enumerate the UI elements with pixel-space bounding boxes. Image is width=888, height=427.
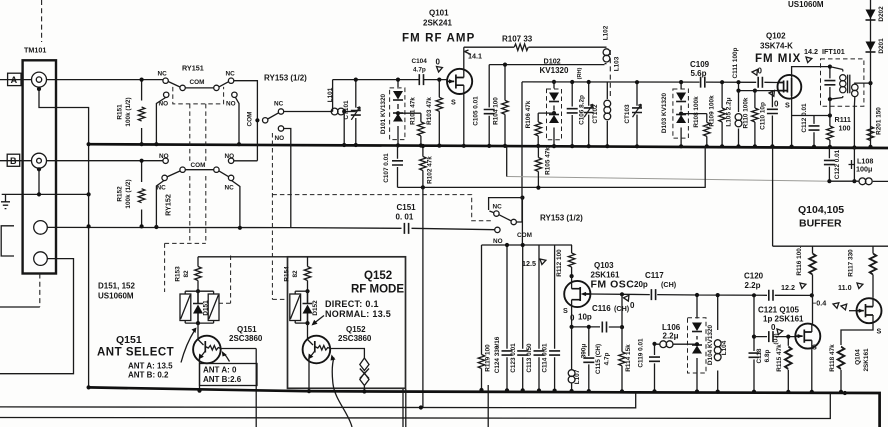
wire L101 to CT101 column [344, 111, 356, 113]
diode D151 [193, 291, 203, 323]
transistor Q151 2SC3860 [193, 336, 221, 364]
junction diamonds bus [362, 389, 366, 393]
junction shield/bus1 [87, 142, 91, 146]
svg-text:R104 100: R104 100 [493, 97, 500, 125]
capacitor C124 electrolytic [506, 245, 508, 390]
relay RY151 contact COM right [214, 85, 219, 90]
capacitor C151 [404, 223, 408, 234]
relay RY153b contact NC [494, 211, 499, 216]
relay RY151 contact NO right [232, 92, 237, 97]
svg-text:R118 47k: R118 47k [829, 344, 836, 372]
wire Q103 drain [571, 276, 573, 289]
leader ANT SELECT to D151 [181, 331, 195, 363]
wire vertical RF fold [487, 385, 489, 427]
relay RY153b contact COM [511, 219, 516, 224]
capacitor C117 [651, 289, 655, 300]
junction R101 bus [419, 143, 423, 147]
svg-text:R105 47k: R105 47k [545, 147, 552, 175]
connector 3 [34, 221, 48, 235]
svg-text:C120: C120 [744, 272, 764, 281]
wire out row [829, 180, 888, 182]
relay RY151 linkage dashed box [173, 87, 224, 104]
junction source bus [790, 145, 794, 149]
svg-text:TM101: TM101 [24, 46, 46, 55]
svg-text:20p: 20p [634, 280, 648, 289]
junction D151 bottom [196, 321, 200, 325]
svg-text:S: S [812, 343, 817, 352]
wire Q103 source [571, 300, 573, 327]
resistor R106 [537, 113, 539, 146]
junction R109 bus [720, 144, 724, 148]
svg-text:L104: L104 [721, 340, 728, 355]
junction G2 branch [736, 80, 740, 84]
shield bus vertical [88, 144, 90, 388]
relay RY152 contact NC right [228, 175, 233, 180]
resistor R111 [829, 116, 831, 147]
dashed box D101 [390, 88, 405, 140]
junction R104 top [503, 63, 507, 67]
svg-text:R108 100k: R108 100k [693, 96, 700, 128]
svg-text:Q151: Q151 [237, 325, 257, 334]
junction R119 bottom [479, 388, 483, 392]
svg-text:A: A [11, 75, 18, 85]
junction bottom bus [87, 385, 91, 389]
junction D101 mid [396, 111, 400, 115]
svg-text:S: S [451, 98, 456, 107]
junction C105 bus [487, 144, 491, 148]
junction Q152 emitter bus [307, 389, 311, 393]
relay linkage dashed verticals to RY152 [190, 104, 206, 163]
svg-text:RY151: RY151 [182, 64, 204, 73]
vertical R102 wire down [422, 187, 424, 407]
svg-text:COM: COM [247, 112, 254, 127]
junction R118 bottom [839, 390, 843, 394]
svg-text:RY152: RY152 [164, 194, 173, 216]
wire vertical supply from bus [506, 146, 508, 177]
resistor Q151 internal [205, 346, 220, 351]
wire gate column down [621, 294, 623, 327]
wire IF out faint [507, 177, 830, 182]
svg-text:D201: D201 [878, 38, 885, 54]
capacitor C105 [488, 65, 490, 146]
svg-text:C110 10p: C110 10p [760, 102, 767, 130]
wire secondary down to L108 row [853, 148, 855, 182]
svg-text:(CH): (CH) [661, 280, 677, 289]
junction NO-right bus [237, 142, 241, 146]
relay coil D151 block top wire [185, 290, 213, 292]
relay RY151 COM bar [185, 87, 213, 89]
svg-text:R119 100: R119 100 [485, 344, 492, 372]
leader curve Q152 base [332, 358, 352, 427]
resistor R110 [754, 91, 756, 147]
svg-text:COM: COM [191, 162, 206, 169]
svg-text:S: S [877, 327, 882, 336]
wire Q105 gate row [754, 336, 795, 338]
dashed box D104 [688, 318, 707, 373]
svg-text:C105 0.01: C105 0.01 [473, 96, 480, 126]
svg-text:NC: NC [274, 101, 284, 108]
svg-text:D101 KV1320: D101 KV1320 [380, 93, 387, 134]
junction C115 bottom [587, 389, 591, 393]
svg-text:D102: D102 [544, 57, 561, 66]
leader DIRECT to D152 [315, 316, 324, 323]
resistor R117 [872, 246, 874, 298]
wire Q105 source [811, 340, 813, 392]
resistor R103 [438, 80, 440, 146]
relay RY152 lever right [219, 171, 229, 177]
svg-text:Q102: Q102 [766, 32, 786, 41]
resistor R105 [537, 146, 539, 187]
svg-text:NC: NC [226, 71, 236, 78]
junction R201 bus [868, 145, 872, 149]
wire RY153a NC to L101 [284, 111, 333, 113]
svg-text:C113 0/50: C113 0/50 [526, 343, 533, 373]
junction D103 bus [679, 144, 683, 148]
capacitor C107 [397, 146, 399, 187]
svg-text:4.7p: 4.7p [413, 67, 426, 74]
svg-text:C112 0.01: C112 0.01 [801, 103, 808, 133]
svg-text:NORMAL: 13.5: NORMAL: 13.5 [325, 309, 391, 319]
svg-text:0: 0 [436, 58, 441, 67]
trimmer CT101 [355, 80, 357, 145]
wire vertical to RY153b node [521, 82, 523, 222]
trimmer CT103 [636, 82, 638, 146]
svg-text:ANT A: 0: ANT A: 0 [203, 366, 237, 375]
svg-text:RY153 (1/2): RY153 (1/2) [540, 214, 583, 223]
dashed box D102 [547, 89, 562, 140]
junction ant wire shield-x [154, 225, 158, 229]
resistor R154 [307, 257, 309, 291]
svg-text:C106 8.2p: C106 8.2p [579, 95, 586, 125]
wire RY152 NO right up [234, 160, 258, 162]
junction R102 bus [421, 144, 425, 148]
junction gate node [437, 78, 441, 82]
junction C118 area bus dots [843, 391, 847, 395]
junction CT101 top [354, 78, 358, 82]
box ANT voltages [200, 364, 258, 386]
svg-text:NC: NC [225, 185, 235, 192]
IF transformer IFT101 dashed box [821, 59, 864, 106]
node B input wire [0, 160, 163, 162]
svg-text:C115 (CH): C115 (CH) [595, 344, 602, 374]
svg-text:5.6p: 5.6p [691, 69, 707, 78]
svg-text:Q104,105: Q104,105 [798, 204, 844, 216]
svg-text:82: 82 [183, 270, 190, 278]
wire RY151 NC right to RY153 COM [234, 81, 258, 161]
junction B/R152 [140, 159, 144, 163]
wire B shield down [38, 169, 40, 194]
svg-text:0: 0 [771, 323, 776, 332]
resistor R115 [787, 337, 789, 392]
transistor Q102 FM MIX dual-gate [778, 75, 802, 99]
wire FM tank top [333, 80, 420, 112]
svg-text:NO: NO [226, 101, 236, 108]
junction R109 top [720, 80, 724, 84]
resistor R152 [141, 161, 143, 227]
diode D152 [303, 291, 313, 323]
wire source branch to C112/R111 [792, 115, 830, 117]
junction D102 bus [552, 144, 556, 148]
dashed box D103 [673, 89, 689, 138]
relay RY151 contact NC left [163, 78, 168, 83]
junction R112 drain [570, 274, 574, 278]
trimmer CT102 [588, 82, 590, 146]
junction source bus [462, 144, 466, 148]
inductor L104 [717, 295, 719, 392]
junction A/R151 [140, 78, 144, 82]
svg-text:14.1: 14.1 [468, 52, 482, 61]
junction L105 bus [736, 144, 740, 148]
op Q104 FET 2SK161 [857, 298, 882, 323]
svg-text:−0.4: −0.4 [812, 299, 826, 308]
capacitor C121 [769, 331, 773, 342]
inductor L107 [571, 327, 573, 391]
wire RY153b NC route [489, 198, 523, 210]
junction R106 bus [536, 144, 540, 148]
varactor D104 [696, 295, 698, 392]
svg-text:R201 150: R201 150 [876, 107, 883, 135]
junction CT101 bus [354, 143, 358, 147]
wire Q104 drain [872, 298, 874, 307]
svg-text:11.0: 11.0 [838, 283, 852, 292]
svg-text:R107 33: R107 33 [502, 35, 533, 44]
svg-text:COM: COM [190, 79, 205, 86]
svg-text:NO: NO [493, 238, 503, 245]
junction L107 bottom [570, 389, 574, 393]
wire drain supply R107 [464, 46, 605, 48]
relay coil RY153c [290, 294, 301, 321]
svg-text:2SC3860: 2SC3860 [338, 334, 372, 343]
diode D202 [866, 10, 876, 20]
junction L104 bottom [716, 390, 720, 394]
resistor R108 [706, 114, 708, 147]
svg-text:12.5: 12.5 [522, 259, 536, 268]
relay coil bottom wire b [295, 322, 307, 324]
junction R110 top [753, 89, 757, 93]
svg-text:L107: L107 [574, 369, 581, 384]
junction C112 bus [812, 145, 816, 149]
svg-text:4.7p: 4.7p [604, 353, 611, 366]
svg-text:3SK74-K: 3SK74-K [760, 42, 793, 51]
junction R103 bus [437, 144, 441, 148]
resistor Q152 internal [315, 346, 330, 351]
svg-text:Q152: Q152 [346, 325, 366, 334]
svg-text:R106 47k: R106 47k [525, 100, 532, 128]
resistor R118 [840, 370, 842, 392]
svg-text:R114 15k: R114 15k [625, 344, 632, 372]
relay RY151 contact COM left [180, 85, 185, 90]
svg-text:(RH): (RH) [577, 67, 583, 79]
svg-text:2.2μ: 2.2μ [663, 332, 679, 341]
IFT101 primary cap [829, 67, 831, 100]
wire RF stage2 top [522, 81, 778, 84]
junction C106 top [570, 80, 574, 84]
dashed tuning linkage L102 [609, 50, 611, 99]
wire A shield to bus [39, 89, 89, 144]
svg-text:R153: R153 [175, 266, 182, 282]
junction ground/B-shield [37, 192, 41, 196]
connector A (antenna jack) [32, 72, 47, 87]
wire relay supply row [198, 256, 288, 258]
svg-text:R112 100: R112 100 [556, 249, 563, 277]
relay coil RY151a [180, 294, 191, 321]
svg-text:C114 0.01: C114 0.01 [542, 343, 549, 373]
junction A shield [37, 87, 41, 91]
varactor D101 [397, 80, 399, 145]
wire Q104 source to R118 [841, 315, 873, 345]
junction IFT top [828, 65, 832, 69]
svg-text:RF MODE: RF MODE [351, 284, 404, 296]
junction C122 out [827, 179, 831, 183]
wire vertical below box [403, 389, 406, 427]
junction D102 mid [552, 111, 556, 115]
junction secondary bus [852, 145, 856, 149]
junction C123 top [521, 243, 525, 247]
svg-text:100: 100 [839, 124, 851, 133]
junction C123 bottom [521, 388, 525, 392]
wire ground return row [398, 147, 706, 188]
wire COM down to OSC supply [516, 198, 522, 245]
relay RY152 contact COM left [180, 167, 185, 172]
svg-text:2SK161: 2SK161 [863, 348, 870, 372]
IFT101 core [848, 75, 850, 94]
junction C119 bottom [652, 389, 656, 393]
junction R110 bus [753, 144, 757, 148]
relay RY152 contact COM right [214, 167, 219, 172]
wire supply row 2 [489, 64, 604, 66]
junction R111 bus [828, 145, 832, 149]
svg-text:2SC3860: 2SC3860 [229, 334, 263, 343]
wire G2 row [739, 82, 778, 90]
wire Q104 gate stub [849, 310, 857, 312]
relay coil top wire b [295, 290, 307, 292]
relay RY152 COM bar [185, 169, 213, 171]
svg-text:C122 0.01: C122 0.01 [834, 149, 841, 179]
svg-text:S: S [785, 101, 790, 110]
svg-text:R115 47k: R115 47k [776, 344, 783, 372]
linkage dashed to RY153b [272, 195, 491, 221]
svg-text:2SK241: 2SK241 [423, 19, 452, 28]
svg-text:C116: C116 [592, 304, 611, 313]
IFT101 secondary coil [854, 83, 870, 147]
op Q105 FET 2SK161 [795, 324, 820, 349]
resistor R153 [197, 257, 199, 291]
junction C118 gate row [752, 335, 756, 339]
capacitor C120 [769, 290, 773, 301]
svg-text:C119 0.01: C119 0.01 [638, 338, 645, 368]
relay RY153a contact NO [278, 126, 283, 131]
svg-text:Q101: Q101 [429, 9, 449, 18]
relay RY153a lever [268, 113, 279, 119]
svg-text:S: S [563, 306, 568, 315]
wire source row [572, 326, 622, 328]
inductor L103 [606, 82, 608, 146]
svg-text:ANT SELECT: ANT SELECT [97, 347, 174, 359]
svg-text:R103 47k: R103 47k [426, 97, 433, 125]
svg-text:10p: 10p [578, 313, 592, 322]
junction Q151 emitter bus [197, 389, 201, 393]
emitter Q152 [309, 351, 315, 391]
svg-text:NO: NO [225, 153, 235, 160]
svg-text:B: B [10, 156, 17, 166]
wire buffer supply row [773, 245, 888, 247]
resistor R104 [504, 65, 506, 146]
emitter Q151 [200, 351, 206, 391]
svg-text:BUFFER: BUFFER [799, 218, 842, 230]
junction line2 tap [419, 405, 423, 409]
wire Q102 drain to IFT [792, 67, 830, 78]
junction D104 bottom [695, 389, 699, 393]
relay coil bottom wire [185, 322, 213, 324]
svg-text:ANT A: 13.5: ANT A: 13.5 [128, 362, 173, 371]
relay RY151 contact NO left [164, 92, 169, 97]
junction R115 bottom [786, 390, 790, 394]
transistor Q152 2SC3860 [303, 336, 331, 364]
junction IFT prim bottom [828, 97, 832, 101]
capacitor C110 [771, 91, 773, 147]
wire Q152 base out [330, 349, 364, 359]
svg-text:6.8p: 6.8p [764, 350, 771, 363]
wire RY153a NO down to ant wire [284, 129, 291, 228]
diode column to B+ [870, 0, 872, 147]
bottom line 3 [0, 393, 830, 418]
svg-text:1p 2SK161: 1p 2SK161 [763, 315, 804, 324]
svg-text:L105 2.2μ: L105 2.2μ [726, 97, 733, 126]
svg-text:82: 82 [292, 270, 299, 278]
ground wire [2, 193, 89, 195]
relay coil RY152a [208, 294, 219, 321]
junction source [570, 325, 574, 329]
ground [1, 194, 10, 208]
wire RY152 NC right down [232, 181, 240, 228]
svg-text:C151: C151 [397, 203, 417, 212]
svg-text:D202: D202 [878, 6, 885, 22]
relay RY153a contact COM [263, 118, 268, 123]
svg-text:R117 330: R117 330 [848, 249, 855, 277]
resistor R101 [420, 113, 422, 145]
junction B shield [37, 167, 41, 171]
junction CT103 top [635, 80, 639, 84]
wire Q102 source [791, 96, 793, 147]
svg-text:Q152: Q152 [364, 270, 392, 282]
junction R151 bus [140, 142, 144, 146]
svg-text:14.2: 14.2 [804, 47, 818, 56]
resistor R109 [721, 82, 723, 146]
junction R105 row [536, 186, 540, 190]
svg-text:CT102: CT102 [592, 104, 599, 124]
node A input wire [0, 79, 163, 81]
wire RY152 NC left down [156, 181, 164, 228]
svg-text:C104: C104 [412, 58, 428, 65]
junction D103 top [679, 80, 683, 84]
svg-text:DIRECT: 0.1: DIRECT: 0.1 [325, 299, 379, 309]
resistor R116 [811, 246, 814, 323]
svg-text:ANT B:2.6: ANT B:2.6 [203, 375, 242, 384]
junction D101 bus [396, 143, 400, 147]
svg-text:D104 KV1320: D104 KV1320 [707, 324, 714, 365]
svg-text:COM: COM [517, 232, 532, 239]
capacitor C114 [554, 245, 556, 391]
svg-text:R109 100k: R109 100k [709, 95, 716, 127]
relay RY152 lever left [167, 171, 180, 177]
wire D102 mid to R106 [538, 112, 554, 114]
svg-text:CT103: CT103 [624, 104, 631, 124]
junction RY153 COM node [255, 118, 259, 122]
resistor R107 [514, 44, 528, 51]
junction R108 bus [705, 144, 709, 148]
svg-text:FM OSC: FM OSC [591, 279, 635, 291]
wire L106 row [655, 343, 698, 345]
